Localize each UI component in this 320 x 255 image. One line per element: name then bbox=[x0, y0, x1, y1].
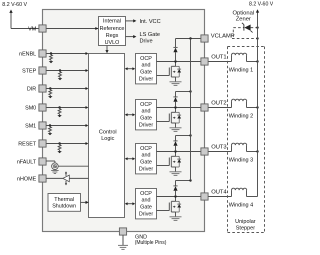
svg-text:and: and bbox=[142, 153, 151, 159]
svg-text:Reference: Reference bbox=[100, 26, 125, 32]
svg-text:(Multiple Pins): (Multiple Pins) bbox=[135, 240, 167, 246]
svg-text:Driver: Driver bbox=[139, 123, 154, 129]
svg-text:LS Gate: LS Gate bbox=[140, 32, 161, 38]
svg-text:OUT1: OUT1 bbox=[211, 54, 226, 60]
svg-text:Logic: Logic bbox=[101, 136, 114, 142]
svg-text:and: and bbox=[142, 198, 151, 204]
svg-text:Shutdown: Shutdown bbox=[52, 204, 76, 210]
svg-text:Regs: Regs bbox=[106, 33, 119, 39]
svg-text:Winding 1: Winding 1 bbox=[229, 68, 253, 74]
svg-text:Driver: Driver bbox=[139, 167, 154, 173]
svg-text:8.2 V-60 V: 8.2 V-60 V bbox=[249, 1, 273, 7]
svg-text:Winding 2: Winding 2 bbox=[229, 114, 253, 120]
svg-text:Unipolar: Unipolar bbox=[235, 219, 256, 225]
svg-text:Winding 3: Winding 3 bbox=[229, 158, 253, 164]
svg-text:SM0: SM0 bbox=[25, 106, 36, 112]
svg-text:Thermal: Thermal bbox=[54, 197, 74, 203]
svg-text:Gate: Gate bbox=[140, 116, 152, 122]
svg-text:Stepper: Stepper bbox=[236, 225, 255, 231]
svg-text:Int. VCC: Int. VCC bbox=[140, 19, 161, 25]
svg-text:OCP: OCP bbox=[140, 146, 152, 152]
svg-text:Internal: Internal bbox=[103, 19, 121, 25]
svg-text:Gate: Gate bbox=[140, 205, 152, 211]
svg-text:DIR: DIR bbox=[27, 87, 36, 93]
svg-text:UVLO: UVLO bbox=[105, 40, 120, 46]
svg-text:Gate: Gate bbox=[140, 70, 152, 76]
svg-text:OCP: OCP bbox=[140, 56, 152, 62]
svg-text:Winding 4: Winding 4 bbox=[229, 203, 253, 209]
svg-text:Driver: Driver bbox=[139, 212, 154, 218]
svg-text:Optional: Optional bbox=[233, 10, 255, 16]
svg-text:Driver: Driver bbox=[139, 77, 154, 83]
svg-text:STEP: STEP bbox=[22, 69, 36, 75]
svg-text:OUT2: OUT2 bbox=[211, 100, 226, 106]
svg-text:8.2 V-60 V: 8.2 V-60 V bbox=[2, 2, 27, 8]
svg-text:OUT4: OUT4 bbox=[211, 189, 227, 195]
svg-text:Control: Control bbox=[99, 130, 117, 136]
svg-text:RESET: RESET bbox=[18, 142, 37, 148]
svg-text:SM1: SM1 bbox=[25, 124, 36, 130]
svg-text:Drive: Drive bbox=[140, 38, 153, 44]
svg-text:VM: VM bbox=[28, 27, 37, 33]
svg-text:VCLAMP: VCLAMP bbox=[211, 33, 235, 39]
svg-text:OUT3: OUT3 bbox=[211, 144, 226, 150]
svg-text:nHOME: nHOME bbox=[17, 177, 37, 183]
svg-text:Zener: Zener bbox=[236, 17, 251, 23]
svg-text:OCP: OCP bbox=[140, 102, 152, 108]
svg-text:OCP: OCP bbox=[140, 191, 152, 197]
svg-text:and: and bbox=[142, 109, 151, 115]
svg-text:and: and bbox=[142, 63, 151, 69]
svg-text:Gate: Gate bbox=[140, 160, 152, 166]
svg-text:nENBL: nENBL bbox=[19, 52, 36, 58]
svg-text:nFAULT: nFAULT bbox=[17, 160, 37, 166]
